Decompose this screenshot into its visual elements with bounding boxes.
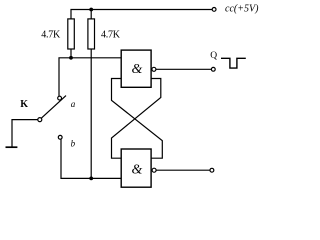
svg-text:&: & [131, 162, 142, 177]
svg-text:4.7K: 4.7K [101, 30, 121, 41]
svg-text:&: & [131, 62, 142, 77]
svg-text:Q: Q [210, 51, 217, 61]
svg-text:4.7K: 4.7K [41, 30, 61, 41]
svg-text:K: K [20, 99, 28, 110]
svg-text:b: b [71, 139, 76, 149]
svg-text:cc(+5V): cc(+5V) [225, 4, 259, 15]
svg-text:a: a [71, 99, 76, 109]
